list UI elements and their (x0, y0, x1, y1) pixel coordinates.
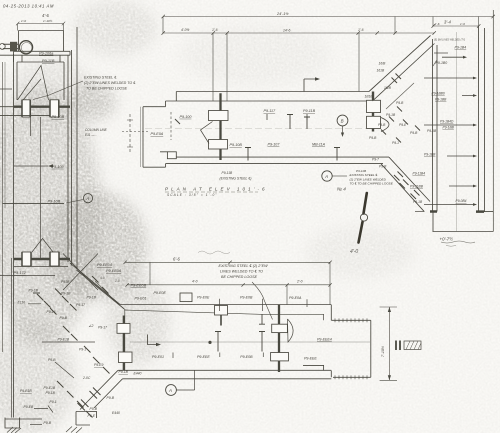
svg-text:P9-E0A: P9-E0A (151, 132, 164, 136)
svg-text:P9-EEE4: P9-EEE4 (317, 337, 332, 341)
svg-text:1'-0: 1'-0 (21, 19, 26, 23)
svg-text:161B: 161B (377, 69, 386, 73)
bottom edge outer1 (118, 370, 331, 377)
svg-text:(EXISTING STEEL ℄): (EXISTING STEEL ℄) (220, 176, 252, 180)
svg-text:1'-6: 1'-6 (358, 28, 364, 32)
X brace (63, 254, 98, 291)
detail circle A (83, 194, 92, 203)
svg-text:P9-EEE: P9-EEE (304, 357, 317, 361)
svg-text:A: A (324, 174, 328, 179)
svg-text:P9-0B4: P9-0B4 (456, 199, 467, 203)
svg-text:P9-E9: P9-E9 (94, 363, 104, 367)
top edge (166, 100, 367, 102)
svg-text:P9-B: P9-B (369, 136, 377, 140)
crossbar beam 1 (14, 105, 70, 107)
svg-text:+0'-7½: +0'-7½ (440, 237, 454, 242)
left end edge of plan (124, 309, 126, 370)
svg-text:4-0: 4-0 (100, 276, 105, 280)
svg-text:E440: E440 (134, 372, 142, 376)
svg-text:24'-1½: 24'-1½ (276, 12, 289, 16)
svg-text:EXISTING STEEL ℄ (2) 2"EW: EXISTING STEEL ℄ (2) 2"EW (219, 264, 269, 268)
svg-text:P9-10B: P9-10B (52, 115, 65, 119)
svg-text:P9-100: P9-100 (52, 165, 65, 169)
svg-text:P9-1B: P9-1B (87, 296, 97, 300)
svg-text:P9-1: P9-1 (392, 141, 399, 145)
dimension line lower (4'-0 2'-0) (127, 262, 330, 304)
right extension hatched walls (333, 320, 371, 377)
gusset triangle above bar 2 (32, 239, 53, 253)
svg-text:7'-10½: 7'-10½ (381, 346, 385, 357)
svg-text:P9-1B4D: P9-1B4D (440, 120, 454, 124)
bottom outer edge (166, 163, 384, 165)
circle A mid (322, 171, 332, 181)
svg-text:1'-0: 1'-0 (460, 22, 465, 26)
svg-text:P9-E1B: P9-E1B (58, 338, 70, 342)
centre dashed line (145, 128, 368, 130)
svg-text:P9-10B: P9-10B (230, 143, 243, 147)
svg-text:P9-11B: P9-11B (222, 171, 234, 175)
leader from note to beam (252, 282, 273, 320)
svg-text:P9-B: P9-B (107, 396, 115, 400)
beam arrow P9-100 (14, 165, 48, 167)
beam mark x262 (259, 315, 265, 352)
left wall foot (5, 418, 42, 429)
svg-text:E110: E110 (18, 301, 26, 305)
main interior beam (278, 305, 280, 372)
svg-text:P9-EE0B: P9-EE0B (131, 283, 147, 287)
handwriting squiggle (198, 251, 230, 254)
45-degree reference ticks (33, 276, 110, 418)
svg-text:1'-10½: 1'-10½ (43, 19, 53, 23)
svg-text:P9-1B: P9-1B (119, 370, 129, 374)
svg-text:COLUMN LINE: COLUMN LINE (85, 128, 108, 132)
tower centre beam line (slanted scan) (31, 107, 41, 258)
svg-text:1-0: 1-0 (115, 279, 120, 283)
svg-text:EXISTING STEEL ℄: EXISTING STEEL ℄ (84, 76, 117, 80)
bottom edge outer2 (123, 378, 332, 380)
svg-text:P9-1BB: P9-1BB (435, 98, 447, 102)
tower top edge lines (0, 51, 70, 62)
svg-text:E11 — -: E11 — - (85, 133, 96, 137)
notch block left (180, 293, 192, 302)
band foot (76, 402, 97, 426)
right end bearing bar (372, 92, 374, 132)
top edge (120, 304, 331, 306)
bolt and plate left of column (3, 44, 18, 48)
dimension line top of tower (16, 22, 65, 31)
svg-text:3'-4: 3'-4 (444, 20, 452, 25)
svg-text:P9-1BB0: P9-1BB0 (432, 92, 445, 96)
svg-text:PLAN AT ELEV 101'-6: PLAN AT ELEV 101'-6 (165, 187, 268, 192)
pennant flag (288, 319, 294, 342)
svg-text:P9-EB: P9-EB (24, 405, 35, 409)
svg-text:P9-117: P9-117 (264, 109, 277, 113)
svg-text:TO ℄ TO BE CHIPPED LOOSE: TO ℄ TO BE CHIPPED LOOSE (350, 182, 394, 186)
svg-text:P9-EE0A: P9-EE0A (106, 269, 122, 273)
crossbar beam 2 (14, 258, 70, 260)
svg-text:SCALE : 3/8" = 1'-0": SCALE : 3/8" = 1'-0" (167, 193, 218, 197)
beam mark x218 (215, 306, 228, 316)
svg-text:P9-1B: P9-1B (427, 129, 437, 133)
svg-text:P9-E: P9-E (399, 123, 407, 127)
right end step top (331, 305, 371, 321)
svg-text:2'-0: 2'-0 (296, 280, 303, 284)
svg-text:14'-6: 14'-6 (283, 29, 291, 33)
svg-text:P9-E01: P9-E01 (152, 355, 164, 359)
svg-text:P9-1B: P9-1B (386, 113, 396, 117)
long diagonal tie (95, 281, 118, 304)
svg-text:P9-B: P9-B (90, 407, 98, 411)
bottom inner stub (303, 365, 324, 370)
svg-text:P9-EEE: P9-EEE (197, 355, 210, 359)
top bay trapezoid (19, 31, 64, 52)
svg-text:P9-E0A: P9-E0A (289, 296, 302, 300)
beam arrow P9-10B lower (3, 203, 65, 205)
svg-text:TO BE CHIPPED LOOSE: TO BE CHIPPED LOOSE (86, 87, 128, 91)
svg-text:P9-B: P9-B (60, 316, 68, 320)
left end bearing beam (123, 316, 125, 371)
chamfer diagonal 1 (70, 263, 120, 305)
svg-text:1B1B: 1B1B (365, 95, 374, 99)
bottom inner edge (176, 156, 389, 158)
tower bottom edge (14, 266, 68, 268)
svg-text:A: A (168, 388, 172, 393)
svg-text:P9-E01: P9-E01 (135, 296, 147, 300)
elbow arrow inside plan (148, 335, 159, 345)
svg-text:P9-107: P9-107 (268, 142, 281, 146)
svg-text:BE CHIPPED LOOSE: BE CHIPPED LOOSE (221, 275, 258, 279)
svg-text:P9-EE04: P9-EE04 (97, 263, 112, 267)
circle B (337, 115, 348, 126)
circle A below plan (166, 385, 177, 396)
svg-text:P9-E0E: P9-E0E (154, 291, 167, 295)
svg-text:B: B (341, 119, 344, 124)
svg-text:P9-1: P9-1 (79, 348, 86, 352)
svg-text:16/B: 16/B (379, 62, 387, 66)
svg-text:P9-17: P9-17 (76, 303, 85, 307)
svg-text:P9-1BB: P9-1BB (424, 153, 436, 157)
bearing tick pairs on band (78, 388, 101, 411)
dimension drops (163, 17, 395, 102)
elbow arrow at top plan (304, 79, 317, 92)
svg-text:P9-1B: P9-1B (29, 289, 39, 293)
tower inner wall line (11, 258, 13, 418)
svg-text:(E) BM LINES WELDED (TY): (E) BM LINES WELDED (TY) (434, 39, 465, 42)
svg-text:P9-B: P9-B (410, 131, 418, 135)
svg-text:P9-11B: P9-11B (303, 109, 316, 113)
dashed column line (129, 114, 131, 153)
svg-text:P9-11B4: P9-11B4 (413, 172, 426, 176)
svg-text:P9-E0B: P9-E0B (240, 355, 253, 359)
svg-text:P9-1B0: P9-1B0 (436, 61, 448, 65)
svg-text:6'-6: 6'-6 (173, 256, 181, 261)
svg-text:P9-7: P9-7 (372, 158, 379, 162)
tower right edge pair (68, 27, 77, 270)
section cut symbol B1 (396, 341, 400, 351)
tower left edge (13, 54, 15, 418)
svg-text:E440: E440 (112, 411, 120, 415)
svg-text:P9-1B: P9-1B (61, 292, 71, 296)
leader to circle A (66, 200, 83, 204)
svg-text:P9-1BB: P9-1BB (443, 126, 455, 130)
chevron (201, 122, 213, 144)
brace triangle upper bay (18, 66, 49, 101)
svg-text:1'-6: 1'-6 (212, 28, 218, 32)
svg-text:P9-100: P9-100 (180, 115, 193, 119)
svg-text:4'-0: 4'-0 (350, 249, 358, 255)
svg-text:4'-0½: 4'-0½ (181, 28, 190, 32)
svg-text:№ 4: № 4 (337, 187, 346, 192)
dimension line upper (6'-6) (125, 262, 330, 304)
right dimension line vertical (380, 307, 397, 380)
chamfer diagonal 2 (77, 270, 125, 309)
beam marks (287, 115, 310, 130)
svg-text:4'-0: 4'-0 (192, 280, 198, 284)
svg-text:04-25-2013 10:41 AM: 04-25-2013 10:41 AM (3, 4, 54, 9)
svg-text:4'-6: 4'-6 (42, 13, 50, 18)
pennant right of bar (381, 118, 389, 132)
tower inner verticals (17, 62, 64, 100)
svg-text:MB-11A: MB-11A (312, 142, 326, 146)
strip foot (430, 210, 484, 213)
svg-text:(2) 2"EW LINES WELDED TO ℄: (2) 2"EW LINES WELDED TO ℄ (84, 81, 136, 85)
column circle (19, 41, 32, 54)
svg-text:2-0C: 2-0C (82, 376, 91, 380)
svg-text:1'-6: 1'-6 (435, 22, 440, 26)
svg-text:P9-B: P9-B (44, 421, 52, 425)
svg-text:P9-E1B: P9-E1B (44, 386, 56, 390)
svg-text:P9-B: P9-B (396, 101, 404, 105)
svg-text:A: A (85, 196, 89, 201)
pencil slash mark (364, 193, 367, 214)
left end steps (143, 92, 176, 168)
svg-text:P91B: P91B (61, 280, 70, 284)
far-left wall verticals (2, 62, 4, 352)
svg-text:P9-1B4: P9-1B4 (455, 46, 467, 50)
svg-text:P9-E0B: P9-E0B (240, 296, 253, 300)
svg-text:P9-B1B: P9-B1B (20, 389, 32, 393)
bottom-left chamfer band (88, 370, 123, 408)
svg-text:P9-17: P9-17 (98, 326, 107, 330)
svg-text:P9-B: P9-B (48, 358, 56, 362)
svg-text:P9-172: P9-172 (14, 271, 27, 275)
main beam with splice blocks (219, 93, 221, 160)
svg-text:∠2: ∠2 (89, 324, 94, 328)
arrows into strip (424, 78, 474, 205)
svg-text:LINES WELDED TO ℄ TO: LINES WELDED TO ℄ TO (220, 270, 263, 274)
leader from note to tower (33, 81, 83, 100)
svg-text:P9-1: P9-1 (50, 400, 57, 404)
svg-text:P9-10B: P9-10B (48, 200, 61, 204)
strip top dims (433, 17, 479, 27)
svg-text:P9-B: P9-B (378, 123, 386, 127)
svg-text:16/B: 16/B (384, 86, 392, 90)
svg-text:P9-1B: P9-1B (46, 391, 56, 395)
centreline of lower plan (130, 341, 370, 343)
svg-text:P9-E0E: P9-E0E (197, 296, 210, 300)
top inner line (124, 310, 323, 320)
